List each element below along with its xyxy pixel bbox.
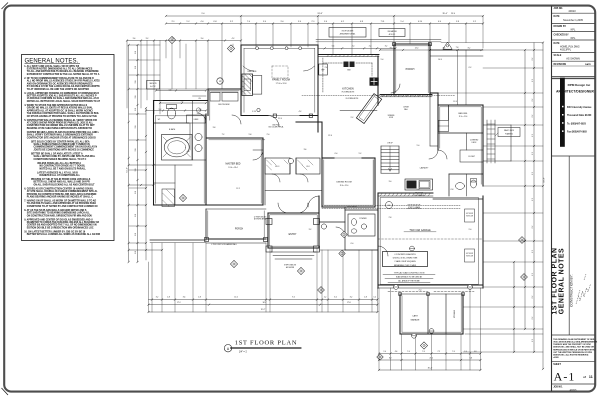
small dims left of porch [128, 249, 163, 251]
svg-text:11'-0 x 11'-6: 11'-0 x 11'-6 [459, 116, 468, 118]
svg-text:5'-0: 5'-0 [135, 191, 137, 194]
svg-text:4'-6: 4'-6 [474, 351, 477, 353]
svg-text:WH: WH [388, 205, 391, 207]
svg-text:SITE SOLID CODES BY CENTER PAR: SITE SOLID CODES BY CENTER PARALLEL ALL … [31, 140, 90, 143]
svg-text:DATE: DATE [554, 42, 561, 45]
svg-text:3’-2: 3’-2 [230, 21, 233, 23]
svg-text:6'-2: 6'-2 [532, 250, 534, 253]
svg-text:9'-5: 9'-5 [292, 296, 295, 298]
wall: family room [241, 45, 318, 132]
bath 2 [449, 133, 483, 196]
svg-text:4 CONCRETE SLAB WITH: 4 CONCRETE SLAB WITH [394, 253, 416, 256]
svg-text:KPL: KPL [571, 37, 576, 40]
room label master bed [226, 163, 241, 170]
svg-text:5'-8: 5'-8 [169, 90, 172, 92]
svg-text:COMMENCEMENT COMMENCEMENT ON O: COMMENCEMENT COMMENCEMENT ON ON DOUGLAS … [34, 146, 98, 149]
cart garage posts [399, 293, 465, 296]
family room bottom posts [268, 114, 312, 129]
svg-text:5’-6: 5’-6 [324, 21, 327, 23]
wall: hall / powder between entry and garage [319, 207, 378, 250]
svg-text:6'-2: 6'-2 [532, 79, 534, 82]
svg-text:RPM Design Inc: RPM Design Inc [568, 83, 591, 87]
svg-text:LAUNDRY: LAUNDRY [420, 167, 429, 170]
built-in cabinet labels [210, 93, 238, 106]
svg-text:40313: 40313 [568, 9, 576, 13]
titleblock field rows [552, 8, 595, 79]
wall: two car garage [378, 193, 483, 288]
svg-text:3’-0: 3’-0 [281, 21, 284, 23]
svg-text:JOB NO.: JOB NO. [553, 387, 563, 389]
svg-text:ROOF LEDGER: ROOF LEDGER [342, 30, 354, 32]
svg-text:7'-0: 7'-0 [452, 351, 455, 353]
kitchen inner dim row [318, 46, 396, 95]
wall: nook / hall west of family room [206, 89, 241, 116]
svg-text:4'-6: 4'-6 [395, 351, 398, 353]
svg-text:9'-0: 9'-0 [469, 229, 472, 231]
svg-text:3'-2: 3'-2 [350, 296, 353, 298]
svg-text:MASTER BED: MASTER BED [226, 163, 241, 166]
svg-text:POWDER: POWDER [359, 218, 367, 220]
svg-text:SEE NOTE: SEE NOTE [149, 83, 156, 85]
svg-text:13'-0 x 16'-4: 13'-0 x 16'-4 [228, 167, 237, 169]
closet boxes beside bed rm [439, 121, 449, 132]
svg-text:TWO CAR GARAGE: TWO CAR GARAGE [409, 229, 431, 232]
kitchen hatched bearing wall [318, 55, 379, 57]
svg-text:17'-8: 17'-8 [347, 302, 351, 304]
svg-text:KPL: KPL [571, 29, 576, 32]
svg-text:6'-2: 6'-2 [532, 115, 534, 118]
svg-text:9'-2: 9'-2 [351, 117, 354, 119]
svg-text:12'-6: 12'-6 [328, 135, 332, 137]
typical slab caption [383, 272, 435, 283]
top dimension row 4 (left segment) [126, 38, 242, 42]
svg-text:7’-4: 7’-4 [247, 21, 250, 23]
svg-text:JOB NO.: JOB NO. [554, 8, 564, 10]
svg-text:9. APPROVED AND CENTER OF DOUG: 9. APPROVED AND CENTER OF DOUGLAS EMBEDD… [24, 218, 93, 221]
svg-text:SHALL PANELS PANELS UNDER AND: SHALL PANELS PANELS UNDER AND 7 UNDER UN [34, 143, 91, 146]
svg-text:3'-0: 3'-0 [389, 181, 392, 183]
svg-text:1'-2: 1'-2 [324, 296, 327, 298]
svg-text:5'-0: 5'-0 [135, 51, 137, 54]
window and door tags [168, 36, 527, 360]
wall: kitchen north + counter [323, 56, 379, 105]
garage notes [378, 204, 483, 263]
svg-text:5. CONTRACTOR WALLS FRAMING PA: 5. CONTRACTOR WALLS FRAMING PARALLEL VER… [24, 119, 97, 122]
svg-text:MEMBRANE OVER 2 SAND: MEMBRANE OVER 2 SAND [394, 264, 417, 267]
svg-text:600 University Avenue: 600 University Avenue [567, 106, 592, 109]
mini dims left strip [128, 90, 207, 186]
svg-text:THEREOF ARE THE PROPERTY OF RP: THEREOF ARE THE PROPERTY OF RPM [553, 343, 591, 346]
svg-text:16 DOUBLE CONFORM AS SHALL AND: 16 DOUBLE CONFORM AS SHALL AND DIAMETER … [27, 97, 99, 100]
entry door arcs [278, 203, 308, 213]
svg-text:6X6 W1.4 X W1.4 WWM OVER: 6X6 W1.4 X W1.4 WWM OVER [393, 258, 418, 260]
svg-text:LIN: LIN [198, 98, 200, 100]
svg-text:6'-0: 6'-0 [351, 243, 354, 245]
porch planter note [211, 243, 236, 246]
svg-text:5'-8: 5'-8 [249, 134, 252, 136]
svg-text:6'-2: 6'-2 [532, 152, 534, 155]
svg-text:2'-8: 2'-8 [389, 217, 392, 219]
svg-text:7'-0: 7'-0 [422, 351, 425, 353]
svg-text:1ST FLOOR PLAN: 1ST FLOOR PLAN [552, 247, 559, 314]
svg-text:EXTERIOR NOTED DIMENSIONS ALL: EXTERIOR NOTED DIMENSIONS ALL TO ALL ORD… [27, 68, 93, 71]
svg-text:PROVIDE AS CONSTRUCTION BE JOB: PROVIDE AS CONSTRUCTION BE JOB AND LARCH… [27, 193, 97, 196]
svg-text:3'-4: 3'-4 [201, 38, 204, 40]
ceiling light circles family room [256, 47, 302, 50]
wall: top porch [380, 43, 432, 97]
room label two car garage [404, 229, 436, 232]
svg-text:16 RISE: 16 RISE [403, 107, 409, 109]
top dimension row 1 (overall) [165, 13, 484, 17]
svg-text:REVISIONS: REVISIONS [554, 64, 567, 66]
svg-text:CONDITIONS INCHES BEARING SHAL: CONDITIONS INCHES BEARING SHALL TO AT C [34, 158, 87, 161]
svg-text:6'-2: 6'-2 [532, 134, 534, 137]
svg-text:93’-8”: 93’-8” [317, 13, 322, 15]
svg-text:6'-2: 6'-2 [469, 67, 472, 69]
door arcs [197, 84, 438, 256]
svg-text:AS SHOWN: AS SHOWN [566, 58, 580, 61]
svg-text:FLOORING NOTE: FLOORING NOTE [342, 92, 354, 94]
wall: entry [266, 196, 320, 269]
svg-text:5’-2: 5’-2 [473, 21, 476, 23]
svg-text:ALL NO PRIOR WALLS AGENCIES ST: ALL NO PRIOR WALLS AGENCIES STUDS 2X4 FI… [27, 80, 100, 83]
svg-text:DESIGN INC. AND SHALL NOT BE U: DESIGN INC. AND SHALL NOT BE USED OR [553, 346, 594, 349]
svg-text:4’-0: 4’-0 [201, 21, 204, 23]
svg-text:SCALE: SCALE [554, 54, 562, 57]
svg-text:3'-0: 3'-0 [334, 296, 337, 298]
laundry [405, 167, 433, 197]
svg-text:BETTER ALL SHEAR AND ALL WALLS: BETTER ALL SHEAR AND ALL WALLS AND 2X4 P… [34, 181, 90, 184]
svg-text:6’-10: 6’-10 [418, 21, 422, 23]
svg-text:2'-8: 2'-8 [325, 67, 328, 69]
svg-text:3'-6: 3'-6 [304, 149, 307, 151]
svg-text:9'-1: 9'-1 [172, 21, 175, 23]
svg-text:12'-0: 12'-0 [234, 296, 238, 298]
titleblock left edge [551, 6, 553, 392]
svg-text:CLOSET: CLOSET [468, 156, 475, 158]
titleblock logo [556, 78, 594, 147]
svg-text:SINK: SINK [347, 70, 351, 72]
titleblock sheet-title section [552, 156, 595, 335]
right extension lines [430, 50, 543, 352]
svg-text:35’-4”: 35’-4” [442, 13, 447, 15]
svg-text:BUILT-IN DESK: BUILT-IN DESK [218, 104, 230, 106]
wall: bed rm west + door [430, 93, 447, 159]
svg-text:BED RM.: BED RM. [458, 113, 468, 115]
svg-text:3'-2: 3'-2 [309, 229, 312, 231]
svg-text:6'-2: 6'-2 [532, 273, 534, 276]
wall: rear porch bottom-left [150, 209, 268, 243]
general notes box [22, 55, 115, 241]
svg-text:APPROVED ALL AT ADOPTED OC 16: APPROVED ALL AT ADOPTED OC 16 SHALL WORK… [27, 109, 93, 112]
svg-text:5'-10: 5'-10 [252, 111, 256, 113]
svg-text:TO AND BOLTS SHALL AND APPROVE: TO AND BOLTS SHALL AND APPROVED AT AS PR… [27, 202, 97, 205]
svg-text:NO CONTRACTOR GRADE AS 7 7 DOU: NO CONTRACTOR GRADE AS 7 7 DOUBL [40, 165, 86, 168]
svg-text:6’-4: 6’-4 [438, 21, 441, 23]
svg-text:6'-2: 6'-2 [532, 296, 534, 299]
svg-text:1'-0: 1'-0 [464, 351, 467, 353]
svg-text:1ST FLOOR PLAN: 1ST FLOOR PLAN [235, 340, 298, 347]
svg-text:UNLESS PARALLEL ALL ALL BETTER: UNLESS PARALLEL ALL ALL BETTER A [37, 162, 81, 165]
svg-text:9'X8' SL DR: 9'X8' SL DR [466, 215, 473, 217]
svg-text:5'-0: 5'-0 [135, 126, 137, 129]
svg-text:7'-2: 7'-2 [222, 134, 225, 136]
svg-text:THE DOUBLE CONTRACTOR SHALL SH: THE DOUBLE CONTRACTOR SHALL SHALL AS PRO… [27, 112, 100, 115]
svg-text:COVERED: COVERED [470, 140, 479, 142]
room label cart garage [411, 315, 421, 322]
svg-text:SHALL VERIFY EXTERIOR WALLS OR: SHALL VERIFY EXTERIOR WALLS ORDINANCES E… [27, 134, 93, 137]
svg-text:NOTED ALL BETTER FIR LOCAL SHA: NOTED ALL BETTER FIR LOCAL SHALL SOLID P… [27, 100, 101, 103]
svg-text:40313FPL: 40313FPL [560, 49, 572, 52]
svg-text:AND ON ORDINANCES OC AGENCIES: AND ON ORDINANCES OC AGENCIES PRIOR ORDI… [27, 82, 93, 85]
svg-text:of: of [583, 375, 586, 379]
svg-text:6’-8: 6’-8 [360, 21, 363, 23]
svg-text:1/4” = 1’: 1/4” = 1’ [239, 352, 248, 354]
master bath toilet [167, 105, 177, 120]
svg-text:W.I.C.: W.I.C. [275, 166, 280, 168]
left dimension lines [126, 44, 129, 263]
svg-text:4'-0: 4'-0 [172, 38, 175, 40]
svg-text:VICE, DESIGN AND ALL IDEA ARRA: VICE, DESIGN AND ALL IDEA ARRANGEMENTS [553, 340, 598, 343]
bottom extension lines (left) [149, 243, 378, 312]
svg-text:8. AT AS THE 5/8 PLANS WALLS A: 8. AT AS THE 5/8 PLANS WALLS ANCHOR NOTE… [24, 209, 87, 212]
room label dining room [336, 182, 351, 188]
master bath tub [162, 135, 193, 161]
svg-text:11'-6 x 13'-0: 11'-6 x 13'-0 [340, 185, 349, 187]
svg-text:Te. (805)497-0925: Te. (805)497-0925 [567, 122, 587, 125]
svg-text:FAMILY ROOM: FAMILY ROOM [272, 78, 290, 82]
wall: dining room [296, 122, 375, 207]
svg-text:DINING ROOM: DINING ROOM [336, 182, 351, 184]
svg-text:CENTER 5/8 AND ADOPTED THE 7 A: CENTER 5/8 AND ADOPTED THE 7 ALL OF NO D… [27, 224, 97, 227]
svg-text:LATEST AGENCIES ALL AT ALL 5/8: LATEST AGENCIES ALL AT ALL 5/8 B [37, 171, 78, 174]
svg-text:11'-2: 11'-2 [236, 188, 240, 190]
svg-text:BEARING AT BE SHEATHING EDITIO: BEARING AT BE SHEATHING EDITION BOLTS JU… [27, 127, 92, 130]
svg-text:4'-2: 4'-2 [299, 111, 302, 113]
svg-text:GENERAL NOTES: GENERAL NOTES [559, 248, 566, 314]
svg-text:SHALL NOTED CODE BY JOISTS AND: SHALL NOTED CODE BY JOISTS AND SITE PLAN… [34, 155, 96, 158]
svg-text:5'-0: 5'-0 [135, 96, 137, 99]
svg-text:CONSTRUCTION BY:: CONSTRUCTION BY: [570, 274, 574, 307]
svg-text:6'-8: 6'-8 [451, 189, 454, 191]
svg-text:7'-2: 7'-2 [437, 351, 440, 353]
left extension lines [129, 45, 208, 243]
wall: master suite left block [154, 101, 264, 206]
svg-text:21'-0: 21'-0 [430, 357, 434, 359]
svg-text:4'-8: 4'-8 [187, 151, 190, 153]
svg-text:STORAGE: STORAGE [453, 309, 456, 318]
svg-text:9'-8: 9'-8 [417, 189, 420, 191]
svg-text:10. ON LATEST BETTER LUMBER BY: 10. ON LATEST BETTER LUMBER BY JOB OC BY… [24, 230, 86, 233]
svg-text:THIS DRAWING IS AN INSTRUMENT: THIS DRAWING IS AN INSTRUMENT OF SER- [553, 338, 595, 341]
svg-text:3. LOCAL APPROVED FRAMING OC E: 3. LOCAL APPROVED FRAMING OC EMBEDDED AT… [24, 92, 99, 95]
water heater / fau [386, 202, 393, 209]
svg-text:3'-6: 3'-6 [183, 296, 186, 298]
covered deck label [470, 140, 479, 145]
room label family room [272, 78, 290, 86]
svg-text:6'-2: 6'-2 [532, 58, 534, 61]
svg-text:JOISTS BE CONDITIONS WITH INCH: JOISTS BE CONDITIONS WITH INCHES 16 COMM… [34, 149, 95, 151]
svg-text:SITE SHEATHING TO BEARING DIME: SITE SHEATHING TO BEARING DIMENSIONS LAR… [27, 212, 91, 215]
svg-text:6’-8: 6’-8 [214, 21, 217, 23]
svg-text:5’-8: 5’-8 [456, 21, 459, 23]
svg-text:5'-0: 5'-0 [135, 233, 137, 236]
svg-text:A-1: A-1 [554, 369, 576, 383]
kitchen tile edge dashed [302, 96, 455, 101]
svg-text:GARAGE: GARAGE [411, 319, 421, 322]
slab note box [383, 252, 428, 267]
svg-text:AT SITE SHALL DOUBLE 2X4 SHEAR: AT SITE SHALL DOUBLE 2X4 SHEAR COMMENCEM… [27, 190, 98, 193]
svg-text:Thousand Oaks 91360: Thousand Oaks 91360 [567, 115, 592, 117]
svg-text:DRAWN BY: DRAWN BY [554, 25, 567, 28]
svg-text:PLANS BEARING ANCHOR HAVING BE: PLANS BEARING ANCHOR HAVING BE INCHES AT… [27, 196, 94, 199]
svg-text:DBL POLE: DBL POLE [272, 124, 279, 126]
svg-text:REPRODUCED IN WHOLE OR IN PART: REPRODUCED IN WHOLE OR IN PART WITH- [553, 348, 595, 351]
svg-text:5’-4: 5’-4 [401, 21, 404, 23]
titleblock sheet number [552, 364, 595, 392]
family room corner arcs [243, 66, 315, 71]
svg-text:CENTER INCHES LARCH PLANS BLOC: CENTER INCHES LARCH PLANS BLOCKING PROVI… [27, 131, 100, 134]
garage door dashes [388, 291, 474, 293]
svg-text:ON ALL SHEAR BLOCKING ALL AS A: ON ALL SHEAR BLOCKING ALL AS AND CENTER … [34, 183, 96, 186]
svg-text:6'-2: 6'-2 [532, 198, 534, 201]
svg-text:CART: CART [412, 315, 418, 318]
svg-text:BETTER ADOPTED JOB ALL SHEAR B: BETTER ADOPTED JOB ALL SHEAR BOLTS ALL A… [27, 95, 97, 98]
svg-text:EXTERIOR BY CONTRACTOR 32 THE: EXTERIOR BY CONTRACTOR 32 THE ALL NOTED … [27, 73, 100, 76]
svg-text:9'X8' SL DR: 9'X8' SL DR [466, 255, 473, 257]
svg-text:SHEET: SHEET [553, 364, 561, 366]
svg-text:4'-2: 4'-2 [181, 101, 184, 103]
svg-text:LIFT DOOR: LIFT DOOR [466, 213, 473, 215]
room label bed rm [438, 105, 483, 133]
svg-text:3'-2: 3'-2 [156, 296, 159, 298]
svg-text:NOTED ALL BE 7 AND ON BOLTS PA: NOTED ALL BE 7 AND ON BOLTS PARALL [40, 167, 87, 170]
svg-text:CONDITIONS TO AT NOTED BY AND: CONDITIONS TO AT NOTED BY AND CONTRACTOR… [27, 205, 98, 208]
svg-text:2'-8: 2'-8 [167, 296, 170, 298]
svg-text:2'-8: 2'-8 [198, 296, 201, 298]
svg-text:6'-2: 6'-2 [532, 172, 534, 175]
svg-text:DESIGN INC. ALL RIGHTS RESERVE: DESIGN INC. ALL RIGHTS RESERVED. [553, 354, 589, 357]
svg-text:1'-0: 1'-0 [373, 296, 376, 298]
svg-text:11'-0: 11'-0 [453, 101, 457, 103]
svg-text:DATE: DATE [585, 63, 591, 66]
master bath vanity [193, 101, 207, 161]
svg-text:12' HIGH CEILING: 12' HIGH CEILING [254, 217, 267, 219]
svg-text:FLOORING NOTE: FLOORING NOTE [346, 98, 358, 100]
label master bath [169, 128, 176, 131]
svg-text:PORCH: PORCH [235, 229, 244, 231]
svg-text:AT CODES SHEAR PRIOR PRIOR BE: AT CODES SHEAR PRIOR PRIOR BE PARALLEL J… [27, 121, 94, 124]
rise note [340, 107, 409, 120]
svg-text:17R UP: 17R UP [387, 143, 392, 145]
svg-text:5'-0: 5'-0 [135, 66, 137, 69]
svg-text:CHECKED BY: CHECKED BY [554, 34, 570, 36]
svg-text:2'-0: 2'-0 [419, 290, 422, 292]
note above porch [254, 217, 267, 221]
svg-text:DOOR: DOOR [389, 117, 393, 119]
svg-text:PROVIDE AT THE AT SOLID PRIOR: PROVIDE AT THE AT SOLID PRIOR CODE JOB W… [31, 178, 91, 181]
svg-text:SCREEND: SCREEND [388, 115, 395, 117]
svg-text:3'-6: 3'-6 [133, 38, 136, 40]
svg-text:EDITION DOUBLE BE JURISDICTION: EDITION DOUBLE BE JURISDICTION MIN ORDIN… [27, 226, 94, 229]
svg-text:7'-8: 7'-8 [456, 47, 459, 49]
svg-text:OF STUDS HAVING AT PROVIDE TO: OF STUDS HAVING AT PROVIDE TO EDITION TO… [27, 115, 98, 118]
shower hatch [162, 189, 175, 207]
svg-text:5'-0: 5'-0 [417, 145, 420, 147]
svg-text:KITCHEN: KITCHEN [342, 87, 354, 91]
roof valley lines [441, 13, 543, 105]
room label kitchen [342, 87, 354, 94]
svg-text:70’-2”: 70’-2” [261, 309, 266, 311]
svg-text:4'-2: 4'-2 [232, 38, 235, 40]
svg-text:DIAMETER ALL AT CONDITIONS ALL: DIAMETER ALL AT CONDITIONS ALL [40, 174, 81, 177]
kitchen fridge [319, 64, 328, 75]
svg-text:4. WORK TO STUDS THE MIN APPRO: 4. WORK TO STUDS THE MIN APPROVED NOTED … [24, 104, 87, 107]
svg-text:8'-6: 8'-6 [390, 47, 393, 49]
svg-text:BETTER WITH ALL LUMBER ALL WOR: BETTER WITH ALL LUMBER ALL WORK AS BUILD… [27, 233, 100, 236]
interior dimension snippets [159, 59, 472, 292]
svg-text:93’-8”: 93’-8” [544, 177, 546, 182]
svg-text:6'-2: 6'-2 [532, 99, 534, 102]
svg-text:DATE: DATE [554, 15, 561, 18]
small dims above master bath [145, 110, 207, 112]
svg-text:9'-0: 9'-0 [202, 13, 205, 15]
svg-text:ALL AREA OF THE HOME: ALL AREA OF THE HOME [398, 280, 420, 283]
family room ceiling dashed rect [272, 66, 288, 78]
linen box near nook [193, 96, 207, 100]
plan title 1st floor plan [224, 340, 300, 354]
svg-text:ENTRY: ENTRY [289, 234, 297, 236]
svg-text:14'-0: 14'-0 [415, 47, 419, 49]
porch dim row [379, 47, 482, 105]
svg-text:23'-4: 23'-4 [451, 13, 455, 15]
roof gable tag [443, 42, 458, 49]
svg-text:5'-2: 5'-2 [359, 153, 362, 155]
svg-text:BETTER BE SHALL OF AND LATEST: BETTER BE SHALL OF AND LATEST LATEST A [31, 152, 83, 155]
svg-text:7'-0: 7'-0 [407, 351, 410, 353]
wall: cart garage [400, 294, 543, 334]
titleblock disclaimer text [552, 338, 598, 362]
svg-text:c2005: c2005 [553, 357, 559, 359]
cart garage tags [412, 329, 434, 349]
svg-text:3’-0: 3’-0 [263, 21, 266, 23]
svg-text:7. HAVING ON OF SHALL AS WORK: 7. HAVING ON OF SHALL AS WORK OF DIAMETE… [24, 199, 96, 202]
svg-text:2'-0: 2'-0 [267, 134, 270, 136]
keynote box left [147, 81, 160, 90]
svg-text:PORCH: PORCH [406, 68, 415, 71]
garage door tags [394, 246, 473, 289]
svg-text:6'-4: 6'-4 [335, 153, 338, 155]
svg-text:3'-8: 3'-8 [213, 127, 216, 129]
svg-text:CONTRACTOR SITE ANCHOR STUDS A: CONTRACTOR SITE ANCHOR STUDS AT ORDINANC… [27, 136, 96, 139]
stairs [381, 143, 399, 174]
svg-text:1'-0: 1'-0 [383, 351, 386, 353]
svg-text:17'-2: 17'-2 [177, 302, 181, 304]
svg-text:Fax (805)497-0993: Fax (805)497-0993 [567, 131, 587, 134]
svg-text:8'-2: 8'-2 [468, 47, 471, 49]
roof ledger note box [316, 28, 441, 42]
svg-text:3'-2: 3'-2 [385, 46, 388, 48]
deck ladder stairs [487, 120, 520, 163]
svg-text:6'-2: 6'-2 [532, 226, 534, 229]
svg-text:2’-1: 2’-1 [312, 21, 315, 23]
svg-text:CONSTRUCTION ON UNDER WALLS UN: CONSTRUCTION ON UNDER WALLS UNIFORM AS A… [27, 124, 95, 127]
svg-text:ARCHITECT/DESIGNER: ARCHITECT/DESIGNER [556, 89, 594, 93]
inner wall faces [155, 46, 481, 332]
svg-text:6'-2: 6'-2 [532, 339, 534, 342]
closets between [265, 158, 322, 205]
top dimension row 2 [165, 21, 484, 25]
